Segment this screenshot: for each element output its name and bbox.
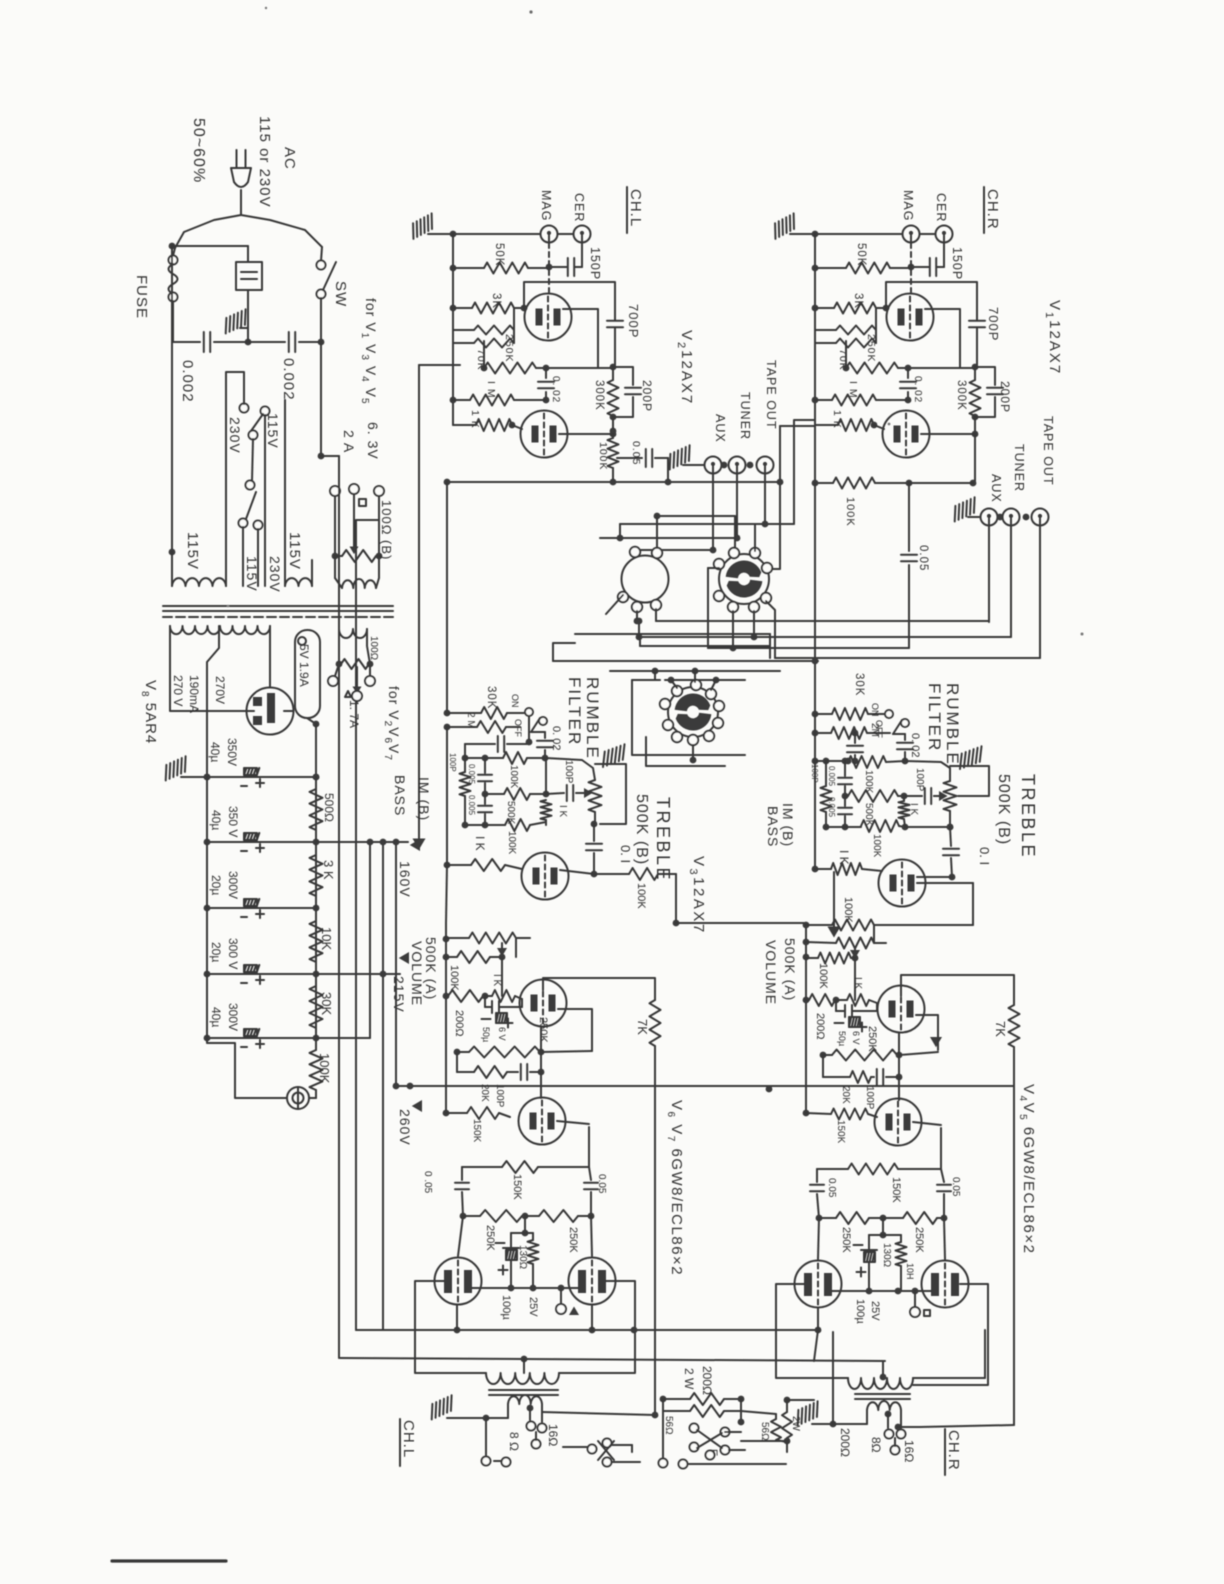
resistor 100K CH.L vertical <box>610 428 617 435</box>
svg-text:0.002: 0.002 <box>280 358 297 401</box>
terminal <box>688 735 698 745</box>
capacitor 0.005 b CH.R <box>844 796 846 806</box>
ground treble CH.R <box>950 765 974 767</box>
node input ground bus CH.R <box>812 231 819 238</box>
capacitor 150P CH.R <box>943 243 945 268</box>
wire <box>766 601 775 658</box>
resistor 1K vert CH.R <box>903 796 905 801</box>
transformer heater coil <box>342 579 376 588</box>
cross switch right <box>690 1424 699 1433</box>
resistor 250K a CH.L <box>460 1213 467 1220</box>
resistor 1K cathode CH.L <box>444 862 451 869</box>
OT CH.L secondary <box>508 1395 542 1404</box>
terminal <box>714 701 724 711</box>
tube pentode V5 CH.R <box>922 1261 969 1308</box>
svg-text:500Ω: 500Ω <box>322 793 336 822</box>
svg-text:250K: 250K <box>537 1017 549 1043</box>
capacitor 0.02 CH.L <box>531 731 545 733</box>
wire plate V7 CH.L <box>559 1281 635 1373</box>
wire <box>721 462 728 469</box>
wire AC cord <box>240 190 242 215</box>
resistor 56ohm CH.R <box>784 1397 791 1404</box>
svg-text:115V: 115V <box>184 532 201 570</box>
capacitor 100P CH.R <box>904 795 922 797</box>
svg-text:250K: 250K <box>567 1227 579 1253</box>
svg-text:2 A: 2 A <box>341 430 357 453</box>
svg-text:10K: 10K <box>319 927 334 950</box>
svg-text:0. 02: 0. 02 <box>550 376 561 403</box>
wire treble box CH.L <box>600 764 626 824</box>
wire treble box CH.R <box>958 766 989 796</box>
svg-text:20µ: 20µ <box>209 942 223 962</box>
wire feedback corner CH.L <box>675 874 677 923</box>
wire <box>769 634 771 658</box>
resistor 3K CH.L <box>453 307 472 309</box>
svg-text:FILTER: FILTER <box>565 677 584 746</box>
resistor 100K grid CH.L <box>446 956 457 958</box>
svg-text:100K: 100K <box>508 765 519 789</box>
resistor 200ohm CH.L <box>446 995 448 997</box>
bus left CH.L <box>452 234 454 425</box>
wire jack stems CH.R <box>988 526 990 623</box>
svg-text:AUX: AUX <box>989 474 1003 503</box>
wire <box>662 1399 664 1463</box>
tube triode V CH.L a <box>525 294 572 341</box>
resistor 250K CH.L <box>474 326 514 335</box>
pilot lamp <box>207 1038 287 1098</box>
svg-text:0.05: 0.05 <box>826 1178 837 1198</box>
filter rung 908 <box>207 907 316 909</box>
test point CH.L <box>560 1288 562 1303</box>
switch SW <box>321 247 322 261</box>
svg-text:RUMBLE: RUMBLE <box>943 683 962 766</box>
svg-text:AUX: AUX <box>713 414 727 443</box>
electrolytic 50u CH.L <box>484 996 486 1007</box>
pot TREBLE 500K CH.L <box>546 758 595 780</box>
svg-text:350V: 350V <box>225 738 239 766</box>
wire bus <box>446 727 448 865</box>
wire <box>226 372 244 586</box>
wire plate loop CH.L <box>563 309 598 367</box>
resistor 1K CH.L <box>485 995 492 997</box>
svg-text:0. I: 0. I <box>618 845 633 863</box>
wire bus y516 <box>657 515 735 517</box>
svg-text:100P: 100P <box>563 760 574 784</box>
jack AUX CH.R <box>981 509 998 526</box>
ground speaker CH.R <box>792 1401 823 1425</box>
resistor grid 250K CH.L <box>476 419 512 431</box>
svg-text:CH.R: CH.R <box>945 1430 962 1471</box>
capacitor 0.005 a CH.R <box>842 758 849 765</box>
B+ rails right <box>316 841 408 843</box>
svg-text:270V: 270V <box>213 676 227 704</box>
filter rung 777 <box>207 776 316 778</box>
wire <box>1023 514 1030 521</box>
svg-text:30K: 30K <box>485 686 497 709</box>
wire B+ from rect <box>307 718 316 724</box>
svg-text:6 V: 6 V <box>497 1027 507 1041</box>
wire <box>563 1446 588 1448</box>
svg-text:100K: 100K <box>597 442 609 471</box>
svg-text:IM (B): IM (B) <box>416 777 432 821</box>
wire jack stems CH.L <box>712 474 714 551</box>
svg-text:6. 3V: 6. 3V <box>365 422 381 460</box>
svg-text:40µ: 40µ <box>209 1007 223 1027</box>
heater rail 2 <box>355 520 357 1330</box>
svg-text:0.05: 0.05 <box>630 441 642 465</box>
transformer 6.3V-b winding <box>339 629 367 638</box>
svg-text:150K: 150K <box>511 1174 523 1200</box>
wire <box>619 524 621 538</box>
pot TREBLE 500K CH.R <box>905 761 950 781</box>
wire 260V rail <box>396 1085 1014 1087</box>
ground input CH.R <box>769 213 800 239</box>
svg-text:SW: SW <box>332 281 349 307</box>
resistor 2M CH.L <box>444 724 451 731</box>
switch ON-OFF CH.R <box>885 710 893 718</box>
svg-text:CH.L: CH.L <box>627 189 644 227</box>
svg-text:50~60%: 50~60% <box>190 118 207 183</box>
resistor 50K CH.R <box>815 267 846 269</box>
capacitor 150P CH.L <box>581 243 583 268</box>
wire frame x794 <box>794 420 815 524</box>
resistor 300K CH.L <box>612 367 614 380</box>
wire cathode to 7K CH.L <box>543 978 655 1000</box>
pot 500K volume CH.R <box>806 942 836 943</box>
svg-text:20K: 20K <box>840 1086 851 1104</box>
resistor 100K plate V3b <box>806 924 832 926</box>
resistor 10K chain <box>310 921 323 962</box>
transformer 5V winding <box>295 630 320 718</box>
wire tuner link CH.L <box>734 516 736 553</box>
resistor 1K CH.L <box>453 399 470 401</box>
svg-text:56Ω: 56Ω <box>663 1416 674 1435</box>
wire plate bus CH.R <box>974 434 976 483</box>
resistor 7K CH.R <box>1009 1005 1020 1047</box>
svg-text:3K: 3K <box>852 293 864 309</box>
svg-text:CER: CER <box>572 193 586 222</box>
svg-text:100K: 100K <box>842 897 854 923</box>
terminal <box>691 680 701 690</box>
choke 130ohm CH.L <box>525 1232 533 1234</box>
resistor 7K CH.L <box>650 1000 661 1046</box>
svg-text:FUSE: FUSE <box>133 275 150 319</box>
terminal <box>660 699 670 709</box>
resistor 70K CH.L <box>453 329 474 331</box>
resistor 100K CH.R <box>818 482 833 484</box>
terminal <box>704 731 714 741</box>
wire plate loop CH.R <box>925 309 960 367</box>
wire <box>753 611 755 637</box>
capacitor 0.05 CH.L <box>617 457 642 459</box>
svg-text:50µ: 50µ <box>481 1027 491 1042</box>
svg-text:50K: 50K <box>855 243 867 266</box>
wire <box>725 1431 741 1433</box>
OT CH.R secondary <box>867 1401 901 1410</box>
wire frame right <box>984 1330 986 1378</box>
svg-text:250K: 250K <box>484 1225 496 1251</box>
wire grid feeds CH.R <box>818 1218 819 1259</box>
jack CER CH.L <box>574 226 591 243</box>
OT CH.L primary <box>523 1359 525 1373</box>
wire <box>741 1440 787 1442</box>
paper speck <box>529 10 532 13</box>
terminal <box>713 718 723 728</box>
resistor 250K CH.L <box>454 1049 461 1056</box>
resistor 3K CH.R <box>815 307 834 309</box>
capacitor 0.1 CH.L <box>593 824 595 841</box>
svg-text:0.005: 0.005 <box>827 766 836 787</box>
wire bus CH.R down <box>814 425 816 483</box>
svg-text:2 W: 2 W <box>682 1368 696 1390</box>
resistor 100K chain <box>315 1038 317 1050</box>
svg-text:2 M: 2 M <box>465 712 476 729</box>
wire <box>612 1444 632 1446</box>
svg-text:150P: 150P <box>950 247 964 280</box>
svg-text:100Ω: 100Ω <box>368 636 379 661</box>
speaker taps CH.R <box>885 1411 892 1418</box>
capacitor 0.002 b <box>248 341 285 343</box>
svg-text:200Ω: 200Ω <box>814 1013 826 1040</box>
terminal <box>714 591 724 601</box>
wire <box>456 1052 458 1072</box>
wire anode supply line <box>356 1329 818 1331</box>
filter rung 974 <box>207 973 316 975</box>
svg-text:100K: 100K <box>871 834 882 858</box>
heater terminals <box>330 486 340 496</box>
terminal <box>630 547 640 557</box>
svg-text:BASS: BASS <box>392 775 408 816</box>
wire box S3 <box>632 680 745 755</box>
svg-text:AC: AC <box>281 147 298 170</box>
svg-text:30K: 30K <box>853 673 865 696</box>
svg-text:0.002: 0.002 <box>179 360 196 403</box>
capacitor 0.05 R CH.L <box>589 1167 591 1180</box>
wire 700P top CH.R <box>886 282 977 320</box>
tube triode V CH.R a <box>887 294 934 341</box>
svg-text:100P: 100P <box>448 753 457 772</box>
pot 500K volume CH.L <box>446 937 469 939</box>
wire heater coil <box>335 578 342 588</box>
ground treble CH.L <box>595 763 617 765</box>
pot 100ohm hum <box>334 496 336 556</box>
resistor 20K CH.R <box>823 1076 850 1078</box>
svg-text:3 K: 3 K <box>321 860 336 880</box>
svg-text:300V: 300V <box>226 1003 240 1031</box>
wire <box>822 1055 824 1077</box>
wire <box>920 233 936 235</box>
resistor 500ohm <box>310 789 323 830</box>
resistor 50K CH.L <box>453 267 484 269</box>
svg-text:I K: I K <box>491 974 502 987</box>
svg-text:0.05: 0.05 <box>596 1174 607 1194</box>
svg-text:TREBLE: TREBLE <box>1018 774 1038 859</box>
wire <box>501 957 503 996</box>
wire bus y661 <box>553 660 818 662</box>
wire <box>524 1216 526 1233</box>
filter rung 842 <box>207 841 316 843</box>
transformer HV secondary <box>170 626 270 634</box>
resistor 200ohm CH.R <box>806 999 809 1001</box>
wire V3a plate <box>560 870 594 874</box>
svg-text:CER: CER <box>934 193 948 222</box>
electrolytic 100u CH.R <box>869 1234 883 1236</box>
svg-text:100K: 100K <box>817 963 829 989</box>
OT CH.R primary <box>882 1361 884 1378</box>
terminal <box>728 602 738 612</box>
svg-text:700P: 700P <box>986 307 1001 341</box>
bus left CH.R <box>814 234 816 425</box>
svg-text:0 .05: 0 .05 <box>422 1171 433 1194</box>
svg-text:0.005: 0.005 <box>467 795 476 816</box>
wire <box>515 938 517 957</box>
wire cathode row CH.R <box>832 1290 931 1292</box>
wire OT feed line <box>340 1358 885 1361</box>
terminal <box>672 732 682 742</box>
svg-text:30K: 30K <box>319 992 334 1015</box>
jack CER CH.R <box>936 226 953 243</box>
svg-text:0.05: 0.05 <box>950 1177 961 1197</box>
wire <box>732 611 734 648</box>
svg-text:300K: 300K <box>593 380 605 411</box>
wire bus y482 <box>447 481 780 483</box>
capacitor 0.05 L CH.R <box>816 1169 818 1182</box>
svg-text:MAG: MAG <box>539 190 553 221</box>
wire <box>668 677 675 684</box>
transformer core <box>163 605 393 607</box>
resistor 1K CH.R <box>815 399 832 401</box>
resistor 1K cathode CH.R <box>815 868 831 870</box>
svg-text:2M: 2M <box>869 723 880 737</box>
wire <box>655 609 657 621</box>
svg-text:1. 7A: 1. 7A <box>347 700 361 728</box>
triangle marker CH.R <box>930 1037 942 1047</box>
resistor 2M CH.R <box>815 732 831 734</box>
wire <box>553 643 575 661</box>
ground 0.002 <box>240 328 248 342</box>
wire <box>708 567 719 569</box>
capacitor 0.05 L CH.L <box>461 1167 463 1180</box>
resistor 1M CH.L <box>481 365 488 372</box>
svg-text:100K: 100K <box>448 965 460 991</box>
tube triode V3b CH.R <box>879 860 926 907</box>
svg-text:100P: 100P <box>864 1086 875 1110</box>
wire plate V4 CH.R <box>776 1284 848 1378</box>
wire <box>882 1218 884 1235</box>
svg-text:250K: 250K <box>840 1227 852 1253</box>
switch ON-OFF CH.L <box>525 708 533 716</box>
svg-text:200Ω: 200Ω <box>700 1366 714 1395</box>
resistor 300K CH.R <box>974 367 976 380</box>
wire bus y538 <box>600 537 737 539</box>
svg-text:TAPE OUT: TAPE OUT <box>1041 416 1055 486</box>
wire bus CH.R rumble <box>814 733 816 761</box>
wire <box>242 527 244 586</box>
svg-text:100K: 100K <box>635 883 647 909</box>
terminal <box>749 602 759 612</box>
capacitor 100P CH.R drv <box>871 1076 874 1078</box>
resistor 2M vert CH.R <box>825 761 827 786</box>
svg-text:50K: 50K <box>493 243 505 266</box>
wire frame x780 <box>768 426 780 569</box>
terminal <box>652 548 662 558</box>
svg-text:0.05: 0.05 <box>917 545 929 571</box>
terminal <box>663 720 673 730</box>
wire <box>606 595 623 614</box>
resistor 150K b CH.L <box>462 1166 502 1168</box>
resistor 100K twinT CH.R <box>826 760 848 762</box>
wire plate 2 CH.R <box>974 417 976 434</box>
capacitor 0.005 b CH.L <box>484 794 486 804</box>
svg-text:6 V: 6 V <box>851 1031 861 1045</box>
wire 700P top CH.L <box>524 282 615 320</box>
svg-text:100Ω (B): 100Ω (B) <box>379 500 394 560</box>
svg-text:250K: 250K <box>866 1026 878 1052</box>
voltage selector 2 <box>246 481 255 490</box>
resistor 20K CH.L <box>457 1071 474 1073</box>
voltage selector 1 <box>240 404 249 413</box>
svg-text:OFF: OFF <box>513 719 523 737</box>
jack TUNER CH.L <box>729 457 746 474</box>
jack TAPE OUT CH.R <box>1032 509 1049 526</box>
wire selector lines L1-L4 <box>656 620 989 622</box>
svg-text:150K: 150K <box>835 1120 846 1144</box>
capacitor 700P CH.L <box>607 320 623 322</box>
svg-text:100µ: 100µ <box>854 1299 866 1324</box>
svg-text:16Ω: 16Ω <box>546 1424 560 1446</box>
svg-text:0. 02: 0. 02 <box>550 726 562 750</box>
svg-text:700P: 700P <box>626 304 641 338</box>
svg-text:I K: I K <box>557 805 568 818</box>
resistor 500K CH.L <box>485 793 504 795</box>
svg-text:115V: 115V <box>265 413 281 449</box>
OT CH.R core <box>855 1393 910 1395</box>
tube triode V5a CH.R <box>875 1099 922 1146</box>
wire heater rails <box>321 455 339 457</box>
resistor 250K b CH.R <box>883 1217 903 1219</box>
terminal <box>672 686 682 696</box>
terminal <box>706 689 716 699</box>
tube pentode V4 CH.R <box>795 1261 842 1308</box>
speaker switch CH.L <box>502 1458 511 1467</box>
svg-text:200P: 200P <box>640 380 654 412</box>
wire <box>873 925 875 943</box>
wire bus y550 <box>635 549 713 551</box>
terminal <box>714 559 724 569</box>
capacitor 200P CH.R <box>975 367 995 385</box>
svg-text:25V: 25V <box>527 1297 539 1317</box>
resistor 250K b CH.L <box>525 1215 539 1217</box>
svg-text:350 V: 350 V <box>226 806 240 837</box>
rail arrows <box>410 839 420 851</box>
svg-text:TUNER: TUNER <box>1012 444 1026 492</box>
svg-text:115V: 115V <box>286 532 303 570</box>
svg-text:300V: 300V <box>226 871 240 899</box>
wire plate V5 CH.R <box>913 1284 988 1385</box>
jack AUX CH.L <box>705 457 722 474</box>
test point CH.R <box>914 1291 916 1306</box>
capacitor 0.02 rumble CH.R <box>893 733 905 735</box>
electrolytic 100u CH.L <box>511 1232 525 1234</box>
svg-text:TREBLE: TREBLE <box>653 797 673 882</box>
tube triode V7a CH.L <box>519 1098 566 1145</box>
svg-text:0. I: 0. I <box>977 847 992 865</box>
jack MAG CH.R <box>903 226 920 243</box>
wire grid dashed CH.L <box>548 243 550 292</box>
capacitor 0.05 CH.R <box>908 483 910 551</box>
ground input CH.L <box>407 213 438 239</box>
svg-text:130Ω: 130Ω <box>881 1243 892 1268</box>
